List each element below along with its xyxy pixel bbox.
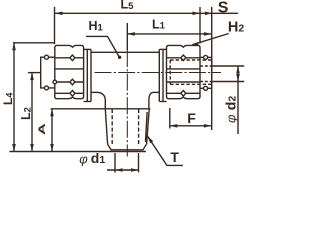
node right tube stub [200,55,212,90]
wire phi-d2 dimension line [236,66,240,134]
wire H2 leader [191,34,229,46]
svg-text:L1: L1 [152,17,166,31]
svg-text:H2: H2 [228,19,244,35]
node body left fillet [99,92,106,108]
svg-text:S: S [218,0,229,16]
svg-text:T: T [170,149,179,165]
svg-text:H1: H1 [89,19,104,33]
wire F dimension line [170,124,212,128]
transistor left nut (knurled cap) [53,45,84,98]
wire phi-d1 left extension [114,153,116,173]
node left tube stub [41,55,55,90]
wire right nut hidden tube (dashed) [170,60,211,84]
wire phi-d1 right extension [138,153,140,173]
wire vertical centerline of stub [126,50,128,157]
node phi-d1 label [79,150,105,167]
svg-text:L2: L2 [19,107,33,120]
node left nut skirt [84,49,91,101]
wire T leader [147,136,183,166]
wire phi-d2 extension lines [212,65,244,67]
wire L5 left extension line [54,7,56,44]
transistor right nut (knurled cap) [167,45,201,98]
svg-text:F: F [187,110,196,126]
wire L5 right extension line [199,7,201,44]
wire L5 dimension line [55,12,200,16]
wire shoulder line + A extension [51,108,151,110]
svg-text:d2: d2 [222,96,238,111]
wire H1 leader [86,36,121,59]
node body right fillet [149,92,153,108]
svg-text:L5: L5 [121,0,135,12]
node phi-d2 label [222,96,238,123]
node body cylinder [91,52,159,92]
svg-text:φ: φ [79,151,88,166]
wire right stub hidden bore (dashed) [200,66,212,82]
wire A dimension line [50,109,54,152]
svg-text:d1: d1 [91,150,106,166]
node right nut skirt [159,49,166,101]
wire bottom baseline extension line [9,151,146,153]
svg-text:φ: φ [223,114,238,123]
wire S extension line (long right vertical) [211,7,213,130]
wire horizontal centerline [95,72,222,74]
wire F left extension line [169,108,171,129]
wire L1 dimension line [127,32,211,36]
transistor threaded stub [105,109,149,150]
wire L1 left extension (stub centerline extension) [126,23,128,50]
svg-text:A: A [36,123,47,135]
wire phi-d1 dimension line [107,168,139,172]
svg-text:L4: L4 [1,93,15,105]
wire L2 dimension line [30,73,34,152]
wire L2 top extension line [28,72,41,74]
wire L4 top extension line [13,42,55,44]
wire L4 dimension line [12,43,16,152]
wire S dimension line [200,12,238,16]
node L5 label [121,0,135,12]
